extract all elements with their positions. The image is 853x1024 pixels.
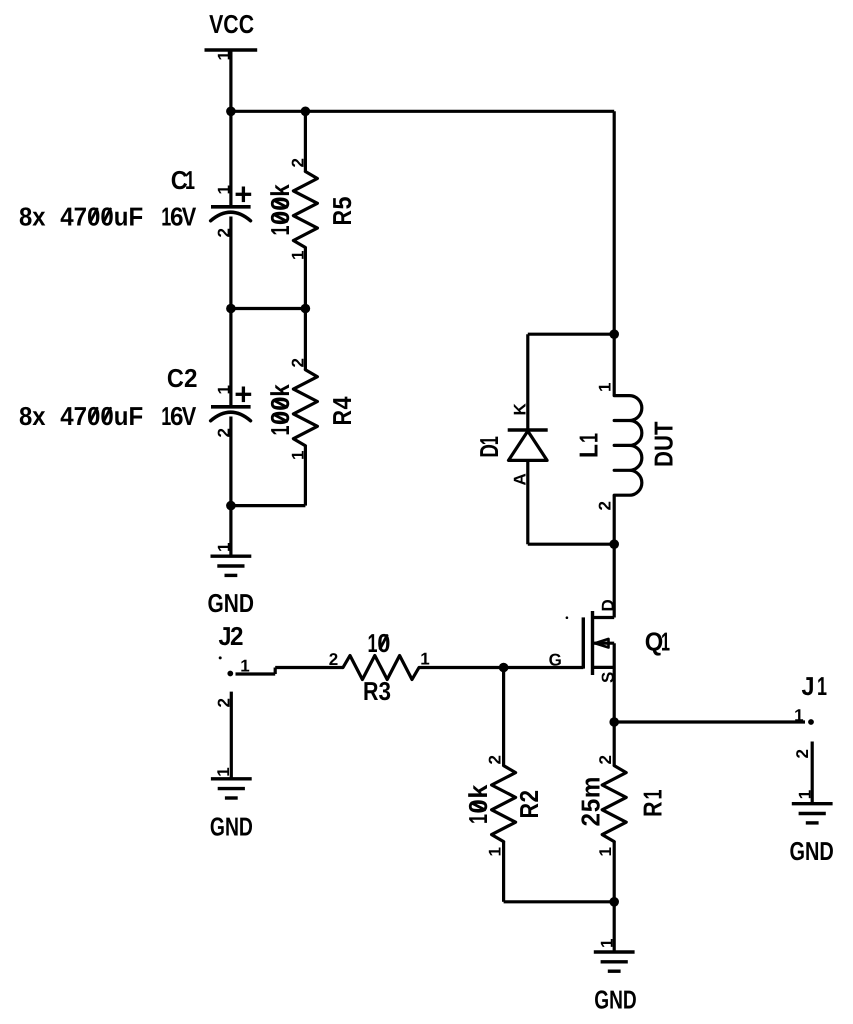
svg-text:GND: GND <box>210 812 253 842</box>
svg-text:G: G <box>549 651 562 670</box>
svg-text:R: R <box>327 210 357 226</box>
svg-text:K: K <box>511 403 530 416</box>
svg-text:4700uF: 4700uF <box>60 202 143 232</box>
svg-text:4700uF: 4700uF <box>60 401 143 431</box>
svg-text:R: R <box>327 410 357 426</box>
svg-text:J: J <box>802 671 815 701</box>
svg-text:1: 1 <box>661 626 670 656</box>
svg-text:DUT: DUT <box>649 421 679 467</box>
svg-text:S: S <box>598 672 617 683</box>
svg-text:2: 2 <box>184 363 198 393</box>
svg-text:D: D <box>474 444 504 458</box>
svg-text:2: 2 <box>329 650 338 669</box>
svg-text:2: 2 <box>214 428 233 437</box>
svg-text:2: 2 <box>214 228 233 237</box>
svg-text:1: 1 <box>596 383 615 392</box>
svg-text:2: 2 <box>485 755 504 764</box>
svg-text:2: 2 <box>596 501 615 510</box>
svg-text:8x: 8x <box>19 401 46 431</box>
svg-text:1: 1 <box>265 426 295 436</box>
svg-text:3: 3 <box>379 676 392 706</box>
svg-text:1: 1 <box>214 767 233 776</box>
svg-text:8x: 8x <box>19 202 46 232</box>
svg-text:1: 1 <box>368 628 378 658</box>
svg-text:R: R <box>637 801 667 817</box>
svg-text:A: A <box>511 473 530 485</box>
svg-text:1: 1 <box>817 671 827 701</box>
svg-text:1: 1 <box>185 165 195 195</box>
svg-text:1: 1 <box>794 706 803 725</box>
svg-text:1: 1 <box>265 226 295 236</box>
svg-text:2: 2 <box>289 158 308 167</box>
svg-text:1: 1 <box>796 790 815 799</box>
svg-text:1: 1 <box>289 251 308 260</box>
svg-text:1: 1 <box>574 433 604 443</box>
svg-text:1: 1 <box>215 51 234 60</box>
svg-text:GND: GND <box>208 588 255 618</box>
svg-text:GND: GND <box>790 836 834 866</box>
svg-text:1: 1 <box>240 657 249 676</box>
svg-text:1: 1 <box>596 847 615 856</box>
svg-text:2: 2 <box>793 749 812 758</box>
svg-text:k: k <box>463 784 493 799</box>
svg-text:2: 2 <box>215 698 234 707</box>
svg-text:R: R <box>514 803 544 819</box>
svg-text:4: 4 <box>327 396 357 409</box>
svg-text:k: k <box>265 184 295 197</box>
svg-text:V: V <box>182 202 197 232</box>
svg-text:k: k <box>265 384 295 397</box>
svg-text:2: 2 <box>289 358 308 367</box>
svg-text:1: 1 <box>463 814 493 824</box>
svg-text:1: 1 <box>485 847 504 856</box>
svg-text:GND: GND <box>594 985 637 1015</box>
svg-text:1: 1 <box>598 939 617 948</box>
svg-text:V: V <box>182 401 197 431</box>
svg-text:R: R <box>363 676 379 706</box>
svg-text:5: 5 <box>576 799 606 813</box>
svg-text:1: 1 <box>214 185 233 194</box>
svg-text:m: m <box>576 777 606 799</box>
svg-text:1: 1 <box>214 385 233 394</box>
svg-text:1: 1 <box>637 790 667 800</box>
svg-text:L: L <box>574 444 604 458</box>
svg-text:2: 2 <box>230 621 244 651</box>
svg-text:D: D <box>598 599 617 611</box>
svg-text:5: 5 <box>327 197 357 210</box>
svg-text:2: 2 <box>576 813 606 827</box>
svg-text:1: 1 <box>289 451 308 460</box>
svg-text:2: 2 <box>596 755 615 764</box>
svg-text:2: 2 <box>514 790 544 803</box>
svg-text:VCC: VCC <box>209 9 254 39</box>
svg-text:1: 1 <box>420 650 429 669</box>
svg-text:C: C <box>167 363 184 393</box>
svg-text:1: 1 <box>474 436 504 445</box>
svg-text:1: 1 <box>215 543 234 552</box>
